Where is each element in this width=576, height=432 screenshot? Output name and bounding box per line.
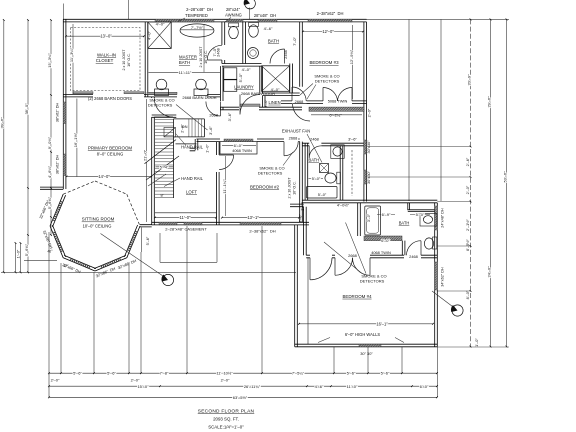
svg-text:2668: 2668 (348, 253, 357, 258)
svg-text:2'–0": 2'–0" (465, 185, 470, 194)
svg-text:1'–0": 1'–0" (204, 144, 209, 153)
svg-text:DETECTORS: DETECTORS (148, 102, 173, 107)
svg-text:11'–3¼": 11'–3¼" (69, 47, 74, 62)
wall bedroom4 door wall (306, 255, 437, 258)
sink hall bath round (248, 48, 259, 59)
svg-text:7'–0": 7'–0" (292, 36, 297, 45)
exhaust fan X box mid bath (320, 164, 329, 173)
wall bedroom3 bottom (281, 101, 367, 104)
svg-text:5'–6⅝": 5'–6⅝" (24, 243, 29, 256)
door bath4 2468 (407, 241, 422, 256)
svg-text:5068 TWIN: 5068 TWIN (328, 98, 348, 103)
extension line top-right horizontal (366, 18, 509, 20)
toilet mid bath (337, 172, 341, 184)
stairs upper flight treads (189, 119, 205, 137)
svg-text:16" O.C.: 16" O.C. (127, 53, 131, 67)
door hall bath entry (270, 49, 285, 64)
wall stair top (152, 115, 177, 117)
svg-text:8': 8' (161, 193, 164, 198)
wall stub left of octagon (40, 187, 63, 189)
washer dryer laundry (224, 68, 237, 80)
svg-text:DETECTORS: DETECTORS (360, 279, 385, 284)
roof outline below casement wall (160, 233, 217, 262)
svg-text:LAUNDRY: LAUNDRY (234, 84, 254, 89)
window casement a center bottom (159, 222, 177, 225)
svg-text:3'–0": 3'–0" (367, 213, 371, 222)
octagon windows 32x66 DH bands (54, 200, 137, 267)
svg-text:46°: 46° (47, 250, 53, 254)
extension line bottom x368 (367, 347, 369, 373)
svg-text:5'–4": 5'–4" (160, 164, 169, 169)
wall hall bottom (220, 107, 302, 110)
extension line left 1'-0" jog (24, 259, 57, 261)
extension line bottom x129 (128, 263, 130, 373)
svg-text:2468: 2468 (283, 50, 288, 59)
leader hand rail a (176, 134, 187, 146)
extension line right 30x30 window b (367, 176, 472, 178)
ceiling fan bedroom4 (452, 305, 463, 316)
wall bedroom4 bath left (358, 203, 361, 236)
svg-text:DETECTORS: DETECTORS (258, 170, 283, 175)
svg-text:BEDROOM #2: BEDROOM #2 (250, 184, 280, 189)
door hall below bedroom3 (293, 104, 311, 122)
svg-text:HAND RAIL: HAND RAIL (181, 144, 204, 149)
wall linen left (262, 96, 265, 108)
svg-text:38"x62" DH: 38"x62" DH (56, 102, 60, 122)
dimension line left short x15.5 (15, 243, 17, 272)
dim loft ticks (154, 217, 300, 219)
svg-text:2–38"x62" DH: 2–38"x62" DH (317, 11, 344, 16)
window 28x48 DH top wall (258, 19, 277, 22)
svg-text:DETECTORS: DETECTORS (315, 78, 340, 83)
svg-text:8'–0" CEILING: 8'–0" CEILING (97, 152, 124, 157)
wall laundry right (260, 66, 263, 94)
stairs break line b (146, 156, 179, 180)
exhaust fan X (320, 164, 329, 173)
door bedroom3 leaf+arc (292, 87, 306, 101)
dimension line right x409 (408, 19, 410, 201)
svg-text:11'–0": 11'–0" (179, 215, 191, 220)
svg-text:2'–0": 2'–0" (51, 378, 60, 383)
sink mid bath (331, 145, 344, 159)
svg-text:24"x48" DH: 24"x48" DH (441, 208, 445, 228)
loft parapet line (155, 212, 217, 214)
svg-text:1'–3": 1'–3" (299, 202, 304, 211)
extension line bottom-left horizontal (1, 271, 296, 273)
leader high walls a (318, 338, 330, 343)
svg-text:3'–6": 3'–6" (298, 214, 303, 223)
door toilet room (207, 45, 222, 60)
svg-text:11'–10½": 11'–10½" (216, 371, 233, 376)
wall mid bath / closet divider (340, 146, 343, 200)
svg-text:3'–6": 3'–6" (348, 137, 357, 142)
dashed insulation line walk-in closet (71, 28, 141, 91)
window 2-38x62 DH top wall (308, 19, 352, 22)
svg-text:2'–6": 2'–6" (465, 157, 470, 166)
svg-text:5'–6": 5'–6" (381, 371, 390, 376)
dimension row bottom y397 overall (49, 396, 437, 398)
dimension chain right x470 (470, 19, 472, 346)
ceiling fan sitting room (162, 274, 173, 285)
shower X (148, 22, 171, 49)
knee wall line bedroom4 (307, 258, 309, 344)
wall closet / master bath divider (145, 22, 148, 97)
extension line bottom x49 (48, 232, 50, 397)
svg-text:16'–1": 16'–1" (376, 321, 388, 326)
svg-text:5'–0": 5'–0" (312, 176, 321, 181)
wall center bottom exterior (152, 222, 309, 225)
tub master bath (180, 24, 214, 37)
window 28x24 awning top wall (227, 19, 243, 22)
extension line bottom x94 (93, 272, 95, 373)
svg-text:SITTING ROOM: SITTING ROOM (82, 217, 115, 222)
svg-text:8'–5½": 8'–5½" (465, 238, 470, 250)
wall exterior right upper (364, 22, 367, 202)
svg-text:HAND RAIL: HAND RAIL (181, 176, 204, 181)
svg-text:13'–0": 13'–0" (100, 34, 112, 39)
svg-text:13'–1": 13'–1" (247, 215, 259, 220)
dim bedroom4 16'-1" (299, 323, 433, 325)
svg-text:16" O.C.: 16" O.C. (204, 50, 208, 64)
tick marks bottom row3 (48, 396, 438, 398)
window casement b center bottom (184, 222, 202, 225)
svg-text:2 x 10 JOIST: 2 x 10 JOIST (287, 177, 291, 199)
svg-text:BATH: BATH (399, 220, 410, 225)
svg-text:11'–11": 11'–11" (179, 70, 192, 75)
dim stairs 21'-0 vertical (146, 99, 148, 222)
svg-text:2–28"x48" CASEMENT: 2–28"x48" CASEMENT (165, 226, 207, 231)
svg-text:53'–6": 53'–6" (502, 171, 507, 183)
svg-text:MASTER: MASTER (179, 55, 197, 60)
extension line top-left x128.5 (128, 0, 130, 19)
svg-text:5'–6": 5'–6" (107, 371, 116, 376)
window 4068 twin bedroom2 (224, 139, 253, 142)
svg-text:4'–0½": 4'–0½" (337, 202, 350, 207)
svg-text:SECOND FLOOR PLAN: SECOND FLOOR PLAN (198, 409, 255, 415)
dim closet 13'-0" (66, 35, 144, 37)
wall laundry top (222, 64, 262, 67)
leader tempered window (178, 18, 185, 22)
extension line right 30x30 window a (367, 146, 472, 148)
wall bedroom4 top jog (290, 204, 304, 207)
stairs break line a (145, 140, 177, 164)
dimension chain left x51 (50, 20, 52, 235)
svg-text:2'–0": 2'–0" (131, 378, 140, 383)
svg-text:PRIMARY BEDROOM: PRIMARY BEDROOM (88, 145, 133, 150)
door bedroom3 double right (338, 87, 353, 101)
wall master bath right (222, 22, 225, 64)
svg-text:63'–5½": 63'–5½" (233, 395, 248, 400)
extension line right y201.5 (437, 201, 471, 203)
octagon sitting room dashed ceiling-break sides (63, 181, 140, 226)
tub bedroom4 bath (365, 206, 381, 235)
svg-text:4'–6": 4'–6" (264, 26, 273, 31)
dim master bath 7-7 (180, 29, 214, 31)
svg-text:2668: 2668 (209, 112, 218, 117)
stairs rail line (173, 119, 175, 198)
svg-text:12'–9¾": 12'–9¾" (349, 49, 354, 64)
svg-text:5'–6": 5'–6" (145, 236, 150, 245)
leader smoke bedroom3 (300, 84, 316, 100)
svg-text:38"x62" DH: 38"x62" DH (56, 154, 60, 174)
tick marks bottom row1 (48, 372, 438, 374)
window 2-28x48 DH tempered top wall (155, 19, 214, 22)
window 30x30 right wall a (364, 140, 367, 154)
dimension line right 53'-6" x506 (506, 19, 508, 346)
svg-text:WALK–IN: WALK–IN (97, 53, 116, 58)
svg-text:2468: 2468 (409, 254, 418, 259)
wall mid bath top (302, 143, 364, 146)
toilet master bath a (155, 89, 169, 96)
window 34x62 DH bedroom4 right b (435, 262, 438, 290)
door bedroom4 a 2668 (310, 258, 332, 280)
svg-text:30"x30": 30"x30" (367, 170, 371, 184)
svg-text:24'–0": 24'–0" (486, 266, 491, 278)
tick marks left chains (3, 19, 52, 273)
stair chase diagonal (164, 128, 176, 137)
wall bedroom4 bottom exterior (295, 344, 438, 347)
svg-text:LOFT: LOFT (186, 190, 197, 195)
svg-text:26'–11¾": 26'–11¾" (244, 384, 261, 389)
door bedroom4 double right (353, 258, 371, 276)
svg-text:11'–0": 11'–0" (347, 384, 358, 389)
svg-text:SCALE:1/4"=1'–0": SCALE:1/4"=1'–0" (208, 424, 244, 429)
extension line bottom x402 (401, 347, 403, 373)
wall shower right (290, 64, 293, 94)
stairs left flight treads (155, 120, 174, 198)
leader awning window (226, 18, 232, 22)
extension line bottom x262 (261, 226, 263, 373)
wall toilet room right (243, 22, 246, 64)
dim b4 bath 6'-9" (377, 214, 395, 216)
door bedroom2 second (284, 142, 298, 156)
wall bedroom4 left exterior (295, 225, 298, 347)
shower hall bath X (262, 66, 290, 92)
wall exterior left (63, 19, 66, 189)
svg-text:8'–0": 8'–0" (465, 290, 470, 299)
dimension row bottom y386 (49, 385, 437, 387)
dim closet 11'-3quarter (72, 24, 74, 94)
window strip 5068 twin below bedroom3 (309, 107, 364, 111)
svg-text:3'–6": 3'–6" (208, 126, 213, 135)
svg-text:39'–6": 39'–6" (0, 117, 5, 129)
svg-text:15'–3¼": 15'–3¼" (47, 53, 52, 68)
door bedroom4 double left (335, 258, 353, 276)
dim bedroom4 ticks (298, 323, 434, 325)
svg-text:5'–0": 5'–0" (238, 73, 243, 82)
svg-text:10'–0" CEILING: 10'–0" CEILING (83, 223, 112, 228)
svg-text:2668: 2668 (289, 136, 298, 141)
dim line 5'-6 right of octagon (141, 228, 143, 253)
svg-text:4'–0": 4'–0" (242, 67, 251, 72)
svg-text:(2) 2668 BARN DOORS: (2) 2668 BARN DOORS (88, 96, 132, 101)
svg-text:2668: 2668 (295, 99, 304, 104)
window strip 4068 twin bath4 (364, 236, 402, 241)
svg-text:6'–2¼": 6'–2¼" (329, 112, 342, 117)
svg-text:38'–0": 38'–0" (24, 103, 29, 115)
toilet bedroom4 bath (433, 237, 437, 249)
dim b4 bath 5'-0" (410, 214, 430, 216)
wall mid bath left (305, 143, 308, 200)
svg-text:BEDROOM #4: BEDROOM #4 (342, 294, 372, 299)
svg-text:2468: 2468 (310, 137, 319, 142)
window 38x62 DH left wall b (63, 154, 66, 176)
svg-text:7'–5¼": 7'–5¼" (292, 371, 305, 376)
wall exterior top (63, 19, 367, 22)
dim closet ticks (65, 35, 145, 37)
dim loft bedroom2 line (155, 217, 299, 219)
svg-text:BATH: BATH (179, 60, 190, 65)
leader smoke bedroom4 (324, 223, 366, 274)
leader smoke hall (176, 105, 208, 131)
stair chase box (164, 128, 176, 137)
svg-text:5'–0": 5'–0" (318, 192, 327, 197)
wall bedroom4 right exterior (435, 203, 438, 347)
dimension line right 29'-6" x490 (490, 19, 492, 346)
svg-text:5'–6": 5'–6" (73, 371, 82, 376)
extension line right y246 (437, 245, 471, 247)
svg-text:CLOSET: CLOSET (96, 58, 114, 63)
window 30x30 right wall b (364, 170, 367, 184)
shower hall bath X box (262, 66, 290, 92)
svg-text:28"x24": 28"x24" (226, 7, 241, 12)
svg-text:BATH: BATH (268, 38, 279, 43)
window 30x30 bedroom4 bottom (359, 344, 381, 347)
wall bath4 top-right jog (408, 203, 435, 212)
barn door slab closet a (73, 92, 93, 94)
svg-text:3'–6": 3'–6" (227, 112, 232, 121)
wall bedroom4 nook vertical (304, 207, 307, 256)
svg-text:4'–6¼": 4'–6¼" (47, 165, 52, 178)
toilet hall bath (249, 25, 259, 37)
wall bedroom2 right (300, 142, 303, 223)
tick marks right chains (470, 18, 508, 347)
svg-text:21'–0": 21'–0" (143, 149, 148, 161)
svg-text:2'–0": 2'–0" (366, 108, 371, 117)
svg-text:2–38"x62" DH: 2–38"x62" DH (249, 228, 275, 233)
barn door slab master bath (147, 92, 177, 94)
svg-text:4068 TWIN: 4068 TWIN (371, 250, 391, 255)
leader hand rail b (164, 178, 180, 187)
svg-text:1'–0": 1'–0" (474, 338, 479, 347)
svg-text:2093 SQ. FT.: 2093 SQ. FT. (213, 416, 239, 421)
svg-text:2'–8": 2'–8" (179, 124, 184, 133)
dim primary 14'-0" (67, 176, 152, 178)
svg-text:4068 TWIN: 4068 TWIN (232, 148, 252, 153)
svg-text:6'–0": 6'–0" (234, 143, 243, 148)
svg-text:EXHAUST FAN: EXHAUST FAN (282, 128, 310, 133)
svg-text:1'–0": 1'–0" (15, 249, 20, 258)
svg-text:6'–0": 6'–0" (381, 238, 390, 243)
dim bedroom3 12'-9 vertical (352, 25, 354, 99)
dim master bath 11'-11" (149, 71, 222, 73)
svg-text:29'–6": 29'–6" (486, 96, 491, 108)
window 24x48 DH bedroom4 right a (435, 206, 438, 230)
dimension line left 39'-6" (3, 20, 5, 272)
octagon sitting room solid walls (50, 194, 140, 271)
extension line bottom x141 (140, 252, 142, 373)
svg-text:2'–1½": 2'–1½" (465, 218, 470, 230)
stairs arrow line (148, 174, 166, 186)
svg-text:AWNING: AWNING (225, 13, 242, 18)
extension line bottom wall to right dims (437, 346, 509, 348)
svg-text:2 x 10 JOIST: 2 x 10 JOIST (199, 46, 203, 68)
toilet in toilet room (229, 26, 239, 38)
wall loft / bedroom2 divider (217, 142, 220, 225)
leader smoke bedroom2 (283, 152, 293, 166)
extension line bottom x437 (436, 347, 438, 397)
svg-text:28"x48" DH: 28"x48" DH (254, 13, 276, 18)
svg-text:4'–0": 4'–0" (156, 21, 165, 26)
tick marks bottom row2 (48, 385, 438, 387)
leader exhaust fan (307, 134, 322, 163)
leader bedroom4 fan (432, 291, 453, 307)
svg-text:BATH: BATH (308, 157, 319, 162)
extension line bottom x61 (60, 263, 62, 373)
dim stairs 5'-4" (156, 166, 174, 168)
wall closet and master bath bottom (63, 94, 220, 97)
dim bedroom3 12'-0" (303, 31, 363, 33)
leader high walls b (395, 338, 404, 343)
window bay bedroom2 (220, 142, 257, 154)
svg-text:5'–6": 5'–6" (347, 371, 356, 376)
wall mid block bottom (302, 200, 437, 203)
dim window strip 6'-2 (311, 114, 362, 116)
svg-text:20'–9": 20'–9" (466, 74, 471, 86)
wall octagon to section corner (140, 225, 152, 227)
svg-text:34"x62" DH: 34"x62" DH (441, 267, 445, 287)
extension line right y291 (437, 290, 471, 292)
barn door slab hall bath (240, 104, 260, 106)
svg-text:LINEN: LINEN (268, 100, 280, 105)
wall stub above loft (190, 139, 198, 151)
sink bedroom4 bath (420, 214, 437, 227)
leader sitting room fan (101, 234, 164, 277)
dim bedroom2 6'-0" (222, 145, 256, 147)
svg-text:2–28"x48" DH: 2–28"x48" DH (186, 7, 213, 12)
dimension line left 38'-0" (27, 20, 29, 272)
svg-text:2668 BARN DOOR: 2668 BARN DOOR (182, 95, 216, 100)
svg-text:6'–0" HIGH WALLS: 6'–0" HIGH WALLS (345, 332, 381, 337)
stairs upper flight sides (174, 119, 205, 144)
closet rod dashed (351, 150, 353, 196)
svg-text:2'–0": 2'–0" (221, 378, 230, 383)
door bedroom2 entry (219, 155, 234, 170)
wall stairs / primary bedroom divider (152, 97, 155, 225)
dim primary ticks (66, 176, 153, 178)
dim mid bath 5'-0" a (309, 177, 324, 179)
svg-text:7'–8": 7'–8" (160, 371, 169, 376)
svg-text:6'–9": 6'–9" (382, 212, 391, 217)
wall bedroom2 top (197, 139, 300, 142)
svg-text:6'–0": 6'–0" (420, 384, 429, 389)
svg-text:14'–0": 14'–0" (98, 174, 110, 179)
door primary bedroom (154, 98, 173, 117)
extension line bottom x187 (186, 226, 188, 373)
svg-text:4'–6": 4'–6" (315, 384, 324, 389)
ceiling fan symbol top (245, 0, 256, 9)
svg-text:BEDROOM #3: BEDROOM #3 (309, 60, 339, 65)
dimension line left short x20.5 (20, 243, 22, 272)
svg-text:2 x 10 JOIST: 2 x 10 JOIST (122, 49, 126, 71)
door laundry from hall (206, 102, 221, 117)
dim bedroom3 ticks (302, 31, 364, 33)
extension line top-left x63.5 (63, 4, 65, 20)
tub mid bath (307, 187, 338, 199)
dimension row bottom y373 (49, 372, 437, 374)
dimension line right x441 (440, 19, 442, 201)
extension line bottom x334 (333, 347, 335, 373)
